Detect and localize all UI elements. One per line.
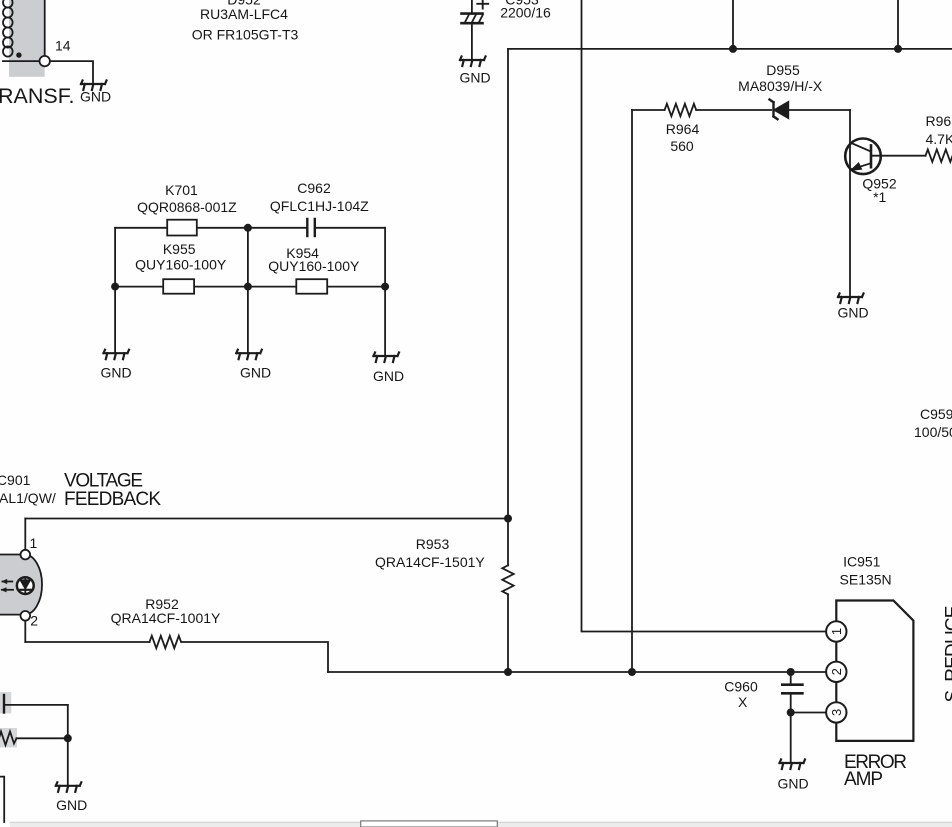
- svg-text:QRA14CF-1501Y: QRA14CF-1501Y: [375, 554, 485, 570]
- wire left vertical of K network: [114, 228, 116, 353]
- wire opto vertical (pin1 up, through LED, pin2 down): [24, 519, 26, 643]
- svg-text:MA8039/H/-X: MA8039/H/-X: [738, 78, 823, 94]
- svg-text:IC951: IC951: [843, 554, 881, 570]
- wire opto pin2 to R952: [25, 641, 149, 643]
- resistor R952 QRA14CF-1001Y: [150, 636, 182, 648]
- relay K701 QQR0868-001Z: [115, 220, 385, 236]
- ground (K network left): [104, 350, 130, 360]
- svg-text:FEEDBACK: FEEDBACK: [64, 489, 161, 510]
- svg-text:2: 2: [30, 613, 38, 629]
- wire drop from top at x=898: [897, 0, 899, 49]
- ground (Q952 emitter): [838, 294, 864, 304]
- junction: [244, 283, 252, 291]
- wire rail corner down to feedback node: [507, 49, 509, 519]
- opto pin 2 terminal: [21, 611, 31, 621]
- svg-text:*1: *1: [873, 189, 886, 205]
- capacitor C960 X: [782, 672, 802, 713]
- wire pin3: [791, 712, 827, 714]
- junction: [729, 45, 737, 53]
- ground (transformer pin 14): [81, 81, 107, 91]
- wire feedback top (opto pin1 to R953 node): [25, 518, 508, 520]
- svg-text:K955: K955: [163, 241, 196, 257]
- ground (C960): [780, 760, 806, 770]
- opto light arrows: [1, 579, 14, 593]
- svg-text:X: X: [738, 694, 748, 710]
- svg-text:R953: R953: [416, 536, 450, 552]
- resistor (cut at left edge, highlighted): [0, 728, 68, 747]
- wire error amp input line: [328, 671, 827, 673]
- wire long vertical to IC951 pin1: [582, 0, 828, 632]
- relay K955 QUY160-100Y: [163, 279, 194, 294]
- wire main rail (horizontal): [508, 48, 952, 50]
- ground (K network middle): [236, 350, 261, 360]
- svg-text:K701: K701: [165, 182, 198, 198]
- IC951 pin 2 terminal: [826, 662, 846, 682]
- svg-text:QFLC1HJ-104Z: QFLC1HJ-104Z: [270, 198, 369, 214]
- wire middle vertical of K network: [247, 228, 249, 353]
- wire Q952 collector/emitter vertical: [849, 110, 851, 297]
- junction (C960 bottom / pin3): [787, 709, 795, 717]
- junction: [111, 283, 119, 291]
- wire diode to Q952 collector drop: [789, 109, 851, 111]
- svg-text:GND: GND: [373, 368, 404, 384]
- opto LED: [17, 577, 34, 594]
- opto pin 1 terminal: [21, 550, 31, 560]
- svg-text:AL1/QW/: AL1/QW/: [0, 490, 56, 506]
- svg-text:GND: GND: [777, 776, 808, 792]
- svg-text:GND: GND: [240, 365, 271, 381]
- svg-text:R965: R965: [926, 113, 952, 129]
- svg-text:QRA14CF-1001Y: QRA14CF-1001Y: [111, 610, 221, 626]
- svg-text:IC901: IC901: [0, 472, 31, 488]
- junction (C960 top): [787, 668, 795, 676]
- junction (rail / feedback / R953): [504, 515, 512, 523]
- svg-text:4.7K: 4.7K: [926, 131, 952, 147]
- svg-text:2200/16: 2200/16: [500, 4, 551, 20]
- wire Q952 base to R965: [871, 155, 926, 157]
- svg-text:100/50: 100/50: [914, 424, 952, 440]
- junction (top rail / middle drop): [244, 224, 252, 232]
- svg-text:OR FR105GT-T3: OR FR105GT-T3: [192, 27, 299, 43]
- svg-text:C962: C962: [297, 180, 331, 196]
- svg-text:3: 3: [829, 709, 844, 716]
- capacitor C962 QFLC1HJ-104Z: [307, 219, 315, 236]
- capacitor (cut at left edge, highlighted): [0, 692, 68, 713]
- wire C960 to ground: [790, 713, 792, 764]
- junction: [381, 283, 389, 291]
- wire second rail: [115, 286, 385, 288]
- svg-text:R964: R964: [666, 121, 700, 137]
- svg-text:QUY160-100Y: QUY160-100Y: [268, 258, 360, 274]
- wire right vertical of K network: [384, 228, 386, 356]
- ground (C953): [460, 57, 486, 67]
- resistor R965 4.7K (cut at right edge): [926, 150, 952, 162]
- IC951 pin 1 terminal: [826, 621, 846, 641]
- optocoupler IC901 body: [0, 555, 42, 615]
- ground (K network right): [374, 353, 400, 363]
- svg-text:2: 2: [829, 668, 844, 675]
- resistor R964 560: [632, 104, 771, 116]
- transistor Q952: [845, 139, 881, 175]
- ground (bottom-left): [56, 782, 82, 792]
- capacitor C953 (electrolytic, 2200/16): [462, 0, 489, 23]
- svg-text:RU3AM-LFC4: RU3AM-LFC4: [200, 6, 288, 22]
- svg-text:GND: GND: [80, 89, 111, 105]
- svg-text:C959: C959: [920, 406, 952, 422]
- svg-text:AMP: AMP: [844, 769, 883, 790]
- svg-text:GND: GND: [56, 797, 87, 813]
- svg-text:S. REDUCE: S. REDUCE: [943, 606, 952, 703]
- wire corner to ground (bottom-left): [67, 705, 69, 786]
- svg-text:560: 560: [670, 138, 694, 154]
- svg-text:SE135N: SE135N: [840, 572, 892, 588]
- junction (R953 bottom): [504, 668, 512, 676]
- wire drop from top at x=733: [732, 0, 734, 49]
- transformer T (body, core, winding): [3, 0, 45, 77]
- junction: [894, 45, 902, 53]
- svg-text:QQR0868-001Z: QQR0868-001Z: [137, 199, 237, 215]
- svg-text:GND: GND: [837, 305, 868, 321]
- wire stub (bottom-left corner): [0, 777, 4, 822]
- svg-text:14: 14: [55, 38, 71, 54]
- wire R964 branch vertical: [631, 110, 633, 672]
- wire R952 to step corner: [182, 642, 329, 672]
- wire C953 to ground: [471, 25, 473, 61]
- svg-text:GND: GND: [460, 70, 491, 86]
- svg-text:1: 1: [30, 535, 38, 551]
- junction: [64, 734, 72, 742]
- svg-text:C960: C960: [724, 679, 758, 695]
- bottom table strip: [10, 821, 952, 827]
- junction (R964 branch): [628, 668, 636, 676]
- svg-text:QUY160-100Y: QUY160-100Y: [135, 257, 227, 273]
- IC951 pin 3 terminal: [826, 702, 846, 722]
- svg-text:D955: D955: [766, 62, 800, 78]
- svg-text:RANSF.: RANSF.: [0, 84, 74, 108]
- relay K954 QUY160-100Y: [296, 279, 327, 294]
- resistor R953 QRA14CF-1501Y (vertical): [502, 519, 513, 673]
- svg-text:GND: GND: [100, 365, 131, 381]
- wire pin14 to ground: [50, 61, 93, 84]
- svg-text:1: 1: [829, 628, 844, 635]
- op-amp IC951 SE135N body: [836, 601, 913, 741]
- zener diode D955 MA8039/H/-X: [770, 100, 789, 120]
- pin 14 terminal of transformer: [40, 56, 50, 66]
